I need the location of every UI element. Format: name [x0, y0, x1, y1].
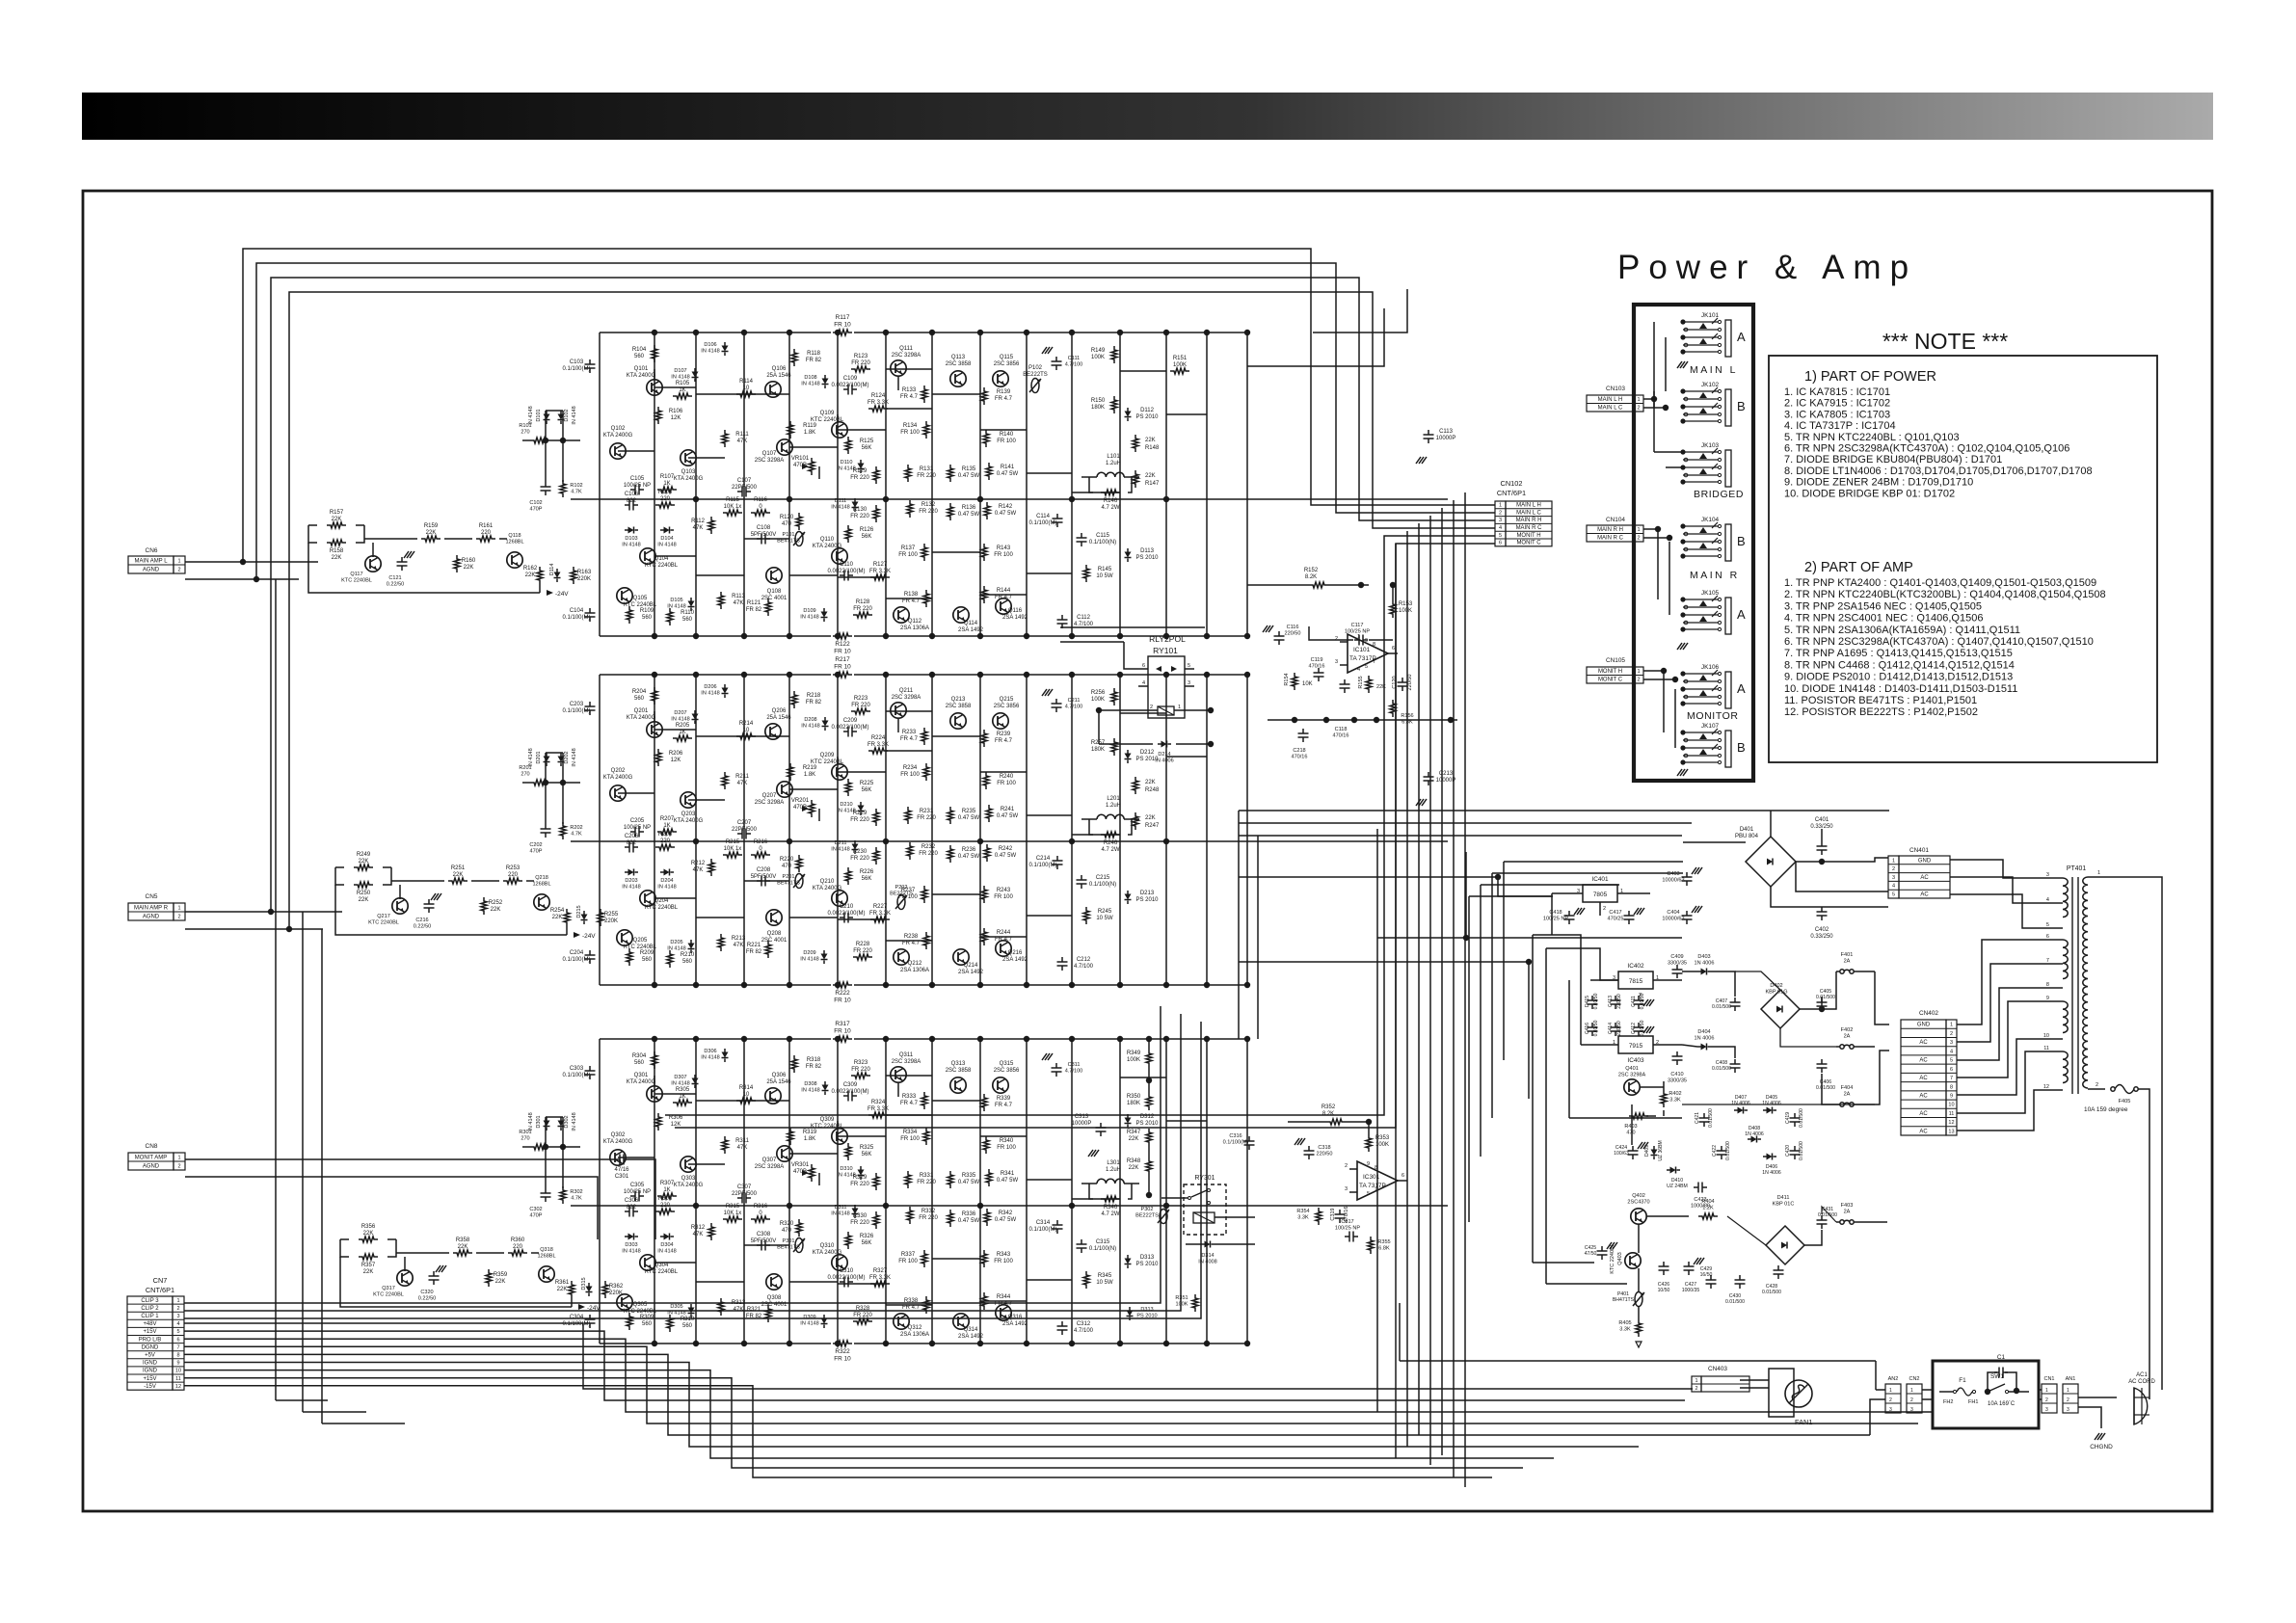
svg-text:C205: C205 — [630, 818, 645, 824]
svg-text:2SC 3856: 2SC 3856 — [994, 704, 1020, 709]
svg-text:2) PART OF AMP: 2) PART OF AMP — [1804, 560, 1913, 575]
transistor Q104 — [640, 548, 655, 564]
transistor Q208 — [766, 910, 782, 925]
phone jack JK106 — [1680, 664, 1746, 708]
svg-text:R205: R205 — [676, 723, 690, 729]
svg-text:C420: C420 — [1785, 1145, 1791, 1157]
svg-text:FR 220: FR 220 — [850, 817, 869, 823]
svg-text:0.1/100(M): 0.1/100(M) — [563, 615, 591, 621]
svg-text:0.1/100(N): 0.1/100(N) — [1089, 882, 1116, 888]
capacitor C317 — [1348, 1232, 1350, 1242]
svg-text:VR101: VR101 — [791, 456, 810, 462]
svg-text:22K: 22K — [1129, 1136, 1139, 1142]
capacitor C319 — [1335, 1213, 1346, 1215]
svg-text:R307: R307 — [660, 1181, 675, 1186]
svg-text:C214: C214 — [1036, 856, 1051, 862]
svg-text:470/16: 470/16 — [1309, 664, 1325, 670]
svg-text:C206: C206 — [625, 834, 639, 839]
svg-text:R253: R253 — [506, 865, 521, 871]
svg-text:RY301: RY301 — [1195, 1175, 1215, 1182]
svg-text:220/50: 220/50 — [1285, 631, 1301, 637]
svg-text:560: 560 — [682, 959, 693, 965]
svg-text:0.22/50: 0.22/50 — [414, 924, 432, 930]
svg-text:FR 100: FR 100 — [900, 1136, 920, 1142]
capacitor C205 — [634, 827, 636, 838]
wire CN403 to FAN1 — [1740, 1379, 1769, 1381]
svg-text:4. IC TA7317P : IC1704: 4. IC TA7317P : IC1704 — [1784, 420, 1896, 432]
svg-text:IN 4148: IN 4148 — [701, 691, 719, 697]
svg-text:R135: R135 — [962, 466, 976, 472]
svg-text:D302: D302 — [564, 1115, 570, 1128]
svg-text:PBU 804: PBU 804 — [1735, 834, 1759, 839]
svg-text:Q208: Q208 — [767, 931, 782, 937]
svg-text:C416: C416 — [1585, 1023, 1590, 1034]
svg-text:0.47 5W: 0.47 5W — [995, 1217, 1017, 1223]
fuse F402 — [1840, 1045, 1844, 1049]
svg-text:D209: D209 — [803, 950, 815, 956]
transistor Q310 — [832, 1255, 847, 1270]
svg-text:0.1/100(N): 0.1/100(N) — [1089, 540, 1116, 545]
svg-text:FH1: FH1 — [1968, 1399, 1978, 1405]
resistor R340 — [983, 1136, 989, 1154]
resistor R255 — [598, 909, 603, 926]
resistor R115 — [723, 510, 742, 516]
svg-text:4.7/100: 4.7/100 — [1065, 1069, 1083, 1075]
svg-text:0.33/250: 0.33/250 — [1810, 934, 1833, 940]
transistor Q203 — [681, 792, 696, 808]
resistor R160 — [454, 555, 460, 572]
svg-text:F402: F402 — [1841, 1027, 1854, 1033]
chassis ground CHGND — [2097, 1433, 2102, 1440]
relay RY101 — [1148, 656, 1185, 718]
svg-text:C119: C119 — [1311, 657, 1323, 663]
svg-text:13: 13 — [1948, 1129, 1954, 1134]
svg-text:1K: 1K — [663, 481, 670, 487]
svg-text:1: 1 — [1695, 1378, 1697, 1384]
svg-text:D313: D313 — [1140, 1255, 1155, 1261]
op-amp IC101 TA7317P — [1348, 634, 1388, 673]
svg-text:2SC 3298A: 2SC 3298A — [892, 1059, 921, 1065]
svg-text:CN8: CN8 — [146, 1143, 158, 1150]
svg-text:FR 220: FR 220 — [919, 1215, 938, 1221]
resistor R248 — [1133, 777, 1138, 794]
svg-text:PS 2010: PS 2010 — [1136, 1314, 1157, 1319]
svg-text:2SA 1306A: 2SA 1306A — [900, 1332, 929, 1338]
svg-text:1: 1 — [176, 1298, 179, 1304]
svg-text:C403: C403 — [1667, 871, 1679, 877]
svg-text:IGND: IGND — [143, 1361, 158, 1367]
capacitor C113 — [1424, 434, 1434, 436]
svg-text:C114: C114 — [1036, 514, 1051, 519]
capacitor C111 — [1052, 360, 1062, 362]
wire input cluster — [335, 885, 567, 935]
svg-text:R213: R213 — [732, 936, 746, 942]
svg-text:MAIN R H: MAIN R H — [1516, 518, 1542, 523]
transistor Q113 — [950, 371, 966, 386]
svg-text:Q302: Q302 — [611, 1132, 626, 1138]
svg-text:R105: R105 — [676, 381, 690, 386]
svg-text:0.01/500: 0.01/500 — [1799, 1108, 1804, 1128]
power routing horizontals — [1400, 862, 1683, 1361]
svg-text:2: 2 — [2045, 1397, 2048, 1403]
svg-text:2: 2 — [1637, 678, 1640, 683]
svg-text:2SC 3298A: 2SC 3298A — [892, 695, 921, 701]
diode D203 — [628, 869, 634, 876]
svg-text:D214: D214 — [1158, 752, 1170, 758]
svg-text:D104: D104 — [660, 536, 673, 542]
transistor Q201 — [647, 722, 662, 737]
svg-text:FR 220: FR 220 — [917, 473, 936, 479]
svg-text:R405: R405 — [1618, 1320, 1631, 1326]
svg-text:1.2uH: 1.2uH — [1106, 461, 1121, 466]
capacitor C403 — [1682, 876, 1693, 878]
svg-text:D108: D108 — [804, 375, 816, 381]
svg-text:R143: R143 — [997, 545, 1011, 551]
svg-text:7: 7 — [1950, 1076, 1953, 1081]
svg-text:KTC 2240BL: KTC 2240BL — [645, 563, 679, 569]
svg-text:5: 5 — [176, 1329, 179, 1335]
svg-text:7: 7 — [176, 1344, 179, 1350]
svg-text:4.7/100: 4.7/100 — [1074, 1328, 1094, 1334]
transistor Q309 — [832, 1129, 847, 1144]
transistor Q216 — [996, 941, 1011, 956]
transformer PT401 — [2043, 865, 2088, 1094]
resistor R404 — [1698, 1213, 1718, 1219]
resistor R211 — [722, 772, 728, 789]
svg-text:IN 4148: IN 4148 — [801, 1088, 819, 1094]
svg-text:RY101: RY101 — [1153, 646, 1178, 655]
svg-text:8: 8 — [1950, 1084, 1953, 1090]
diode D304 — [664, 1234, 670, 1240]
capacitor C307 — [741, 1193, 743, 1204]
svg-text:IN 4148: IN 4148 — [671, 717, 689, 723]
resistor R150 — [1111, 396, 1117, 413]
diode D202 — [558, 757, 565, 762]
svg-text:Q104: Q104 — [654, 556, 669, 562]
capacitor C102 — [541, 486, 551, 488]
svg-text:CN7: CN7 — [153, 1276, 168, 1285]
svg-text:R250: R250 — [357, 891, 371, 896]
svg-text:FR 100: FR 100 — [898, 1259, 918, 1264]
svg-text:560: 560 — [642, 1321, 653, 1327]
svg-text:22K: 22K — [453, 872, 464, 878]
svg-text:10000P: 10000P — [1436, 436, 1456, 441]
svg-text:C215: C215 — [1096, 875, 1110, 881]
svg-text:KTA 2400G: KTA 2400G — [674, 818, 704, 824]
svg-text:12K: 12K — [671, 758, 681, 763]
svg-text:R142: R142 — [999, 504, 1013, 510]
svg-text:D401: D401 — [1740, 827, 1754, 833]
svg-text:IN 4148: IN 4148 — [800, 1321, 818, 1327]
svg-text:220K: 220K — [609, 1290, 623, 1296]
svg-text:R318: R318 — [807, 1057, 821, 1063]
svg-text:P102: P102 — [1028, 365, 1043, 371]
resistor R102 — [560, 480, 566, 497]
svg-text:C115: C115 — [1096, 533, 1110, 539]
svg-text:D415: D415 — [1585, 996, 1590, 1007]
diode D313 — [1125, 1259, 1132, 1264]
svg-text:R202: R202 — [570, 825, 582, 831]
svg-text:C102: C102 — [529, 500, 542, 506]
resistor R354 — [1316, 1208, 1322, 1225]
wire input network — [549, 782, 580, 784]
svg-text:4: 4 — [2046, 897, 2049, 903]
svg-text:3.3K: 3.3K — [1669, 1098, 1681, 1104]
resistor R328 — [853, 1318, 872, 1324]
svg-text:0.1/100(M): 0.1/100(M) — [1223, 1140, 1249, 1146]
svg-text:C218: C218 — [1293, 748, 1305, 754]
svg-text:Q315: Q315 — [1000, 1061, 1014, 1067]
transistor Q314 — [953, 1314, 969, 1329]
svg-text:MAIN L C: MAIN L C — [1516, 510, 1541, 516]
diode D111 — [852, 502, 859, 508]
resistor R230 — [873, 847, 879, 865]
diode D404 — [1701, 1044, 1707, 1051]
svg-text:CHGND: CHGND — [2090, 1444, 2113, 1450]
svg-text:220/50: 220/50 — [1616, 1021, 1622, 1036]
relay RY301 — [1184, 1184, 1226, 1235]
svg-text:FR 10: FR 10 — [834, 1355, 851, 1362]
svg-text:D314: D314 — [1201, 1253, 1214, 1259]
zener D410 — [1670, 1167, 1676, 1174]
resistor R210 — [667, 950, 673, 968]
transistor Q106 — [765, 382, 781, 397]
svg-text:R136: R136 — [962, 505, 976, 511]
svg-text:0.01/50: 0.01/50 — [1593, 993, 1599, 1009]
capacitor C310 — [843, 1277, 845, 1288]
resistor R244 — [981, 928, 987, 945]
routing wires upper right of amp1 — [1313, 289, 1407, 333]
svg-text:2SC 3858: 2SC 3858 — [946, 361, 972, 367]
svg-text:22K: 22K — [525, 572, 536, 578]
capacitor C110 — [843, 571, 845, 581]
svg-text:Q215: Q215 — [1000, 697, 1014, 703]
svg-text:C410: C410 — [1670, 1072, 1683, 1078]
resistor R301 — [530, 1144, 549, 1150]
diode D315 — [586, 1287, 593, 1292]
svg-text:10K 1x: 10K 1x — [724, 1211, 742, 1216]
svg-text:0.47 5W: 0.47 5W — [958, 854, 980, 860]
svg-text:R138: R138 — [904, 592, 919, 598]
svg-text:220/50: 220/50 — [1407, 675, 1413, 691]
svg-text:FR 220: FR 220 — [853, 1313, 872, 1318]
svg-text:4.7 2W: 4.7 2W — [1102, 847, 1120, 853]
svg-text:FR 220: FR 220 — [853, 948, 872, 954]
svg-text:0.01/500: 0.01/500 — [1799, 1141, 1804, 1160]
transistor Q313 — [950, 1078, 966, 1093]
svg-text:FR 3.3K: FR 3.3K — [869, 569, 891, 574]
svg-text:R220: R220 — [780, 857, 794, 863]
svg-text:IN 4148: IN 4148 — [667, 604, 685, 610]
svg-text:47K: 47K — [693, 1232, 704, 1237]
svg-text:FR 82: FR 82 — [806, 358, 822, 363]
svg-text:P202: P202 — [895, 885, 908, 891]
svg-text:PS 2010: PS 2010 — [1136, 1121, 1160, 1127]
svg-text:R327: R327 — [873, 1268, 888, 1274]
svg-text:R354: R354 — [1296, 1209, 1309, 1214]
svg-text:R111: R111 — [735, 432, 749, 438]
resistor R214 — [736, 733, 756, 739]
svg-text:FR 100: FR 100 — [994, 894, 1013, 900]
capacitor C306 — [628, 1207, 630, 1217]
amp block 1 interconnect wires — [618, 369, 1207, 599]
capacitor C426 — [1659, 1265, 1669, 1267]
svg-text:0.1/100(M): 0.1/100(M) — [563, 1073, 591, 1078]
svg-text:6: 6 — [1950, 1067, 1953, 1073]
resistor R332 — [907, 1207, 913, 1224]
transistor Q403 — [1625, 1253, 1641, 1268]
svg-text:R158: R158 — [330, 548, 344, 554]
jack panel internal wiring — [1654, 322, 1683, 748]
capacitor C211 — [1052, 703, 1062, 705]
fuse F403 — [1840, 1220, 1844, 1224]
svg-text:0.22/50: 0.22/50 — [418, 1296, 437, 1302]
resistor R109 — [627, 606, 632, 624]
svg-text:D306: D306 — [704, 1049, 716, 1054]
resistor R220 — [796, 855, 802, 872]
svg-text:C421: C421 — [1695, 1112, 1700, 1124]
svg-text:R236: R236 — [962, 847, 976, 853]
svg-text:9: 9 — [1367, 1161, 1370, 1167]
svg-text:1: 1 — [2097, 870, 2100, 876]
resistor R245 — [1083, 907, 1089, 924]
svg-text:IN 4148: IN 4148 — [622, 543, 640, 548]
svg-text:KTA 2400G: KTA 2400G — [813, 886, 842, 891]
svg-text:C316: C316 — [1229, 1133, 1241, 1139]
wire input cluster — [340, 1257, 572, 1307]
svg-text:CLIP 2: CLIP 2 — [141, 1306, 159, 1312]
svg-text:IN 4148: IN 4148 — [701, 349, 719, 355]
svg-text:R221: R221 — [747, 943, 761, 948]
svg-text:D204: D204 — [660, 878, 673, 884]
svg-text:AC: AC — [1919, 1093, 1928, 1099]
svg-text:Q118: Q118 — [508, 533, 521, 539]
resistor R243 — [981, 886, 987, 903]
svg-text:0.01/500: 0.01/500 — [1725, 1299, 1745, 1305]
transistor Q304 — [640, 1255, 655, 1270]
svg-text:KTC 2240BL: KTC 2240BL — [341, 578, 372, 584]
svg-text:PS 2010: PS 2010 — [1136, 414, 1160, 420]
resistor R302 — [560, 1186, 566, 1204]
power switch box SW1 — [1933, 1361, 2039, 1428]
svg-text:Q207: Q207 — [762, 793, 777, 799]
svg-text:D409: D409 — [1644, 1145, 1650, 1157]
svg-text:8.2K: 8.2K — [1322, 1111, 1334, 1117]
fuse F401 — [1840, 970, 1844, 973]
capacitor C218 — [1298, 732, 1309, 734]
svg-text:CN401: CN401 — [1909, 847, 1929, 854]
svg-text:560: 560 — [682, 617, 693, 623]
svg-text:R255: R255 — [604, 912, 619, 918]
svg-text:1: 1 — [177, 905, 180, 911]
svg-text:Q317: Q317 — [382, 1286, 395, 1291]
svg-text:PS 2010: PS 2010 — [1136, 555, 1160, 561]
svg-text:22K: 22K — [363, 1269, 374, 1275]
svg-text:C313: C313 — [1075, 1114, 1089, 1120]
svg-text:470B: 470B — [793, 1169, 807, 1175]
svg-text:C112: C112 — [1077, 615, 1091, 621]
resistor R323 — [851, 1073, 870, 1078]
resistor R207 — [657, 829, 677, 835]
svg-text:R160: R160 — [462, 558, 476, 564]
diode D207 — [692, 714, 699, 720]
svg-text:R115: R115 — [726, 497, 740, 503]
svg-text:B: B — [1737, 399, 1746, 413]
svg-text:1K: 1K — [679, 730, 685, 735]
svg-text:10000/63: 10000/63 — [1662, 878, 1684, 884]
svg-text:TA 7317P: TA 7317P — [1359, 1183, 1386, 1189]
resistor R253 — [503, 878, 522, 884]
wire lower regulator — [1646, 1215, 1689, 1217]
diode D305 — [688, 1308, 695, 1314]
svg-text:Q210: Q210 — [820, 879, 835, 885]
svg-text:MAIN R H: MAIN R H — [1597, 527, 1623, 533]
amp block 2 interconnect wires — [618, 711, 1207, 941]
resistor R208 — [655, 844, 675, 850]
svg-text:0.01/500: 0.01/500 — [1712, 1004, 1731, 1010]
resistor R334 — [923, 1128, 929, 1145]
wire input cluster — [308, 543, 540, 593]
svg-text:Q310: Q310 — [820, 1243, 835, 1249]
svg-text:5PF/500V: 5PF/500V — [751, 532, 777, 538]
svg-text:22PF/500: 22PF/500 — [732, 485, 758, 491]
wire Q401 area — [1631, 1104, 1633, 1145]
svg-text:Q311: Q311 — [899, 1052, 914, 1058]
svg-text:Q107: Q107 — [762, 451, 777, 457]
svg-text:KBP 01C: KBP 01C — [1773, 1202, 1795, 1208]
svg-text:22PF/500: 22PF/500 — [732, 1191, 758, 1197]
svg-text:Q309: Q309 — [820, 1117, 835, 1123]
capacitor C418 — [1564, 915, 1575, 917]
svg-text:1: 1 — [2045, 1388, 2048, 1394]
svg-text:CN104: CN104 — [1606, 517, 1625, 523]
resistor R202 — [560, 822, 566, 839]
svg-text:R362: R362 — [609, 1284, 624, 1290]
svg-text:IN 4148: IN 4148 — [831, 847, 849, 853]
svg-text:R239: R239 — [997, 732, 1011, 737]
svg-text:1.2K: 1.2K — [1702, 1206, 1714, 1211]
svg-text:IN 4148: IN 4148 — [667, 1311, 685, 1317]
capacitor C105 — [634, 485, 636, 495]
diode D310 — [858, 1170, 865, 1176]
svg-text:IC402: IC402 — [1627, 963, 1644, 970]
svg-text:3: 3 — [1345, 1186, 1348, 1192]
svg-text:560: 560 — [634, 696, 645, 702]
svg-text:7: 7 — [2046, 958, 2049, 964]
svg-text:3: 3 — [1889, 1407, 1892, 1413]
svg-text:AC: AC — [1920, 875, 1929, 881]
diode D213 — [1125, 894, 1132, 900]
svg-text:KTA 2400G: KTA 2400G — [627, 715, 656, 721]
svg-text:10 5W: 10 5W — [1096, 916, 1113, 921]
svg-text:100/63: 100/63 — [1614, 1151, 1629, 1157]
top bus wire MAIN L C — [256, 263, 1495, 579]
svg-text:R352: R352 — [1322, 1104, 1336, 1110]
wire CN8 pin2 — [185, 1177, 598, 1239]
svg-text:R218: R218 — [807, 693, 821, 699]
resistor R118 — [791, 349, 797, 366]
svg-text:2. TR NPN KTC2240BL(KTC3200BL): 2. TR NPN KTC2240BL(KTC3200BL) : Q1404,Q… — [1784, 589, 2106, 600]
svg-text:0.01/500: 0.01/500 — [1816, 1085, 1835, 1091]
svg-text:270: 270 — [521, 1136, 529, 1142]
svg-text:1: 1 — [1910, 1388, 1913, 1394]
svg-text:Q206: Q206 — [772, 708, 787, 714]
resistor R306 — [655, 1113, 661, 1131]
svg-text:22K: 22K — [1145, 438, 1156, 443]
wire transformer pin 1 — [2088, 877, 2162, 1390]
svg-text:C104: C104 — [570, 608, 584, 614]
svg-text:10 5W: 10 5W — [1096, 1280, 1113, 1286]
